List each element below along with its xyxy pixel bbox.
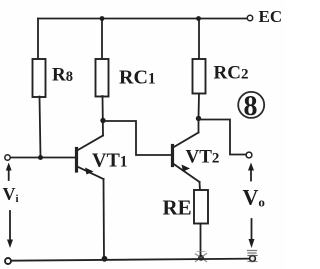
resistor R8 — [33, 59, 46, 97]
wire bottom rail — [11, 259, 253, 261]
wire VT2 collector vertical — [198, 118, 200, 133]
Vo arrow up — [248, 163, 254, 181]
wire RE bottom vertical — [200, 224, 202, 259]
wire R8 top vertical — [37, 19, 39, 60]
transistor VT1 — [77, 136, 104, 180]
svg-text:EC: EC — [259, 7, 283, 26]
wire VT2 emitter vertical — [199, 182, 202, 191]
svg-text:VT2: VT2 — [186, 147, 220, 168]
node figure number circle — [238, 92, 264, 118]
node RE/ground junction — [196, 252, 207, 262]
wire VT1 emitter vertical — [103, 179, 106, 260]
svg-text:RC1: RC1 — [119, 67, 156, 89]
Vi arrow down — [7, 211, 13, 248]
svg-text:8: 8 — [244, 91, 258, 122]
node emitter/ground junction — [102, 256, 108, 262]
wire VT1 base lead — [11, 157, 76, 159]
resistor RC2 — [193, 59, 206, 94]
node RC1 top junction — [100, 16, 105, 21]
ground terminal right — [248, 251, 258, 262]
wire RC1 bottom vertical — [102, 96, 105, 136]
wire RC2 top vertical — [198, 19, 200, 60]
wire coupling C1-B2 — [103, 121, 172, 155]
wire top rail — [38, 18, 247, 20]
node VT2 collector junction — [196, 116, 201, 121]
wire RC1 top vertical — [101, 19, 103, 60]
Vi arrow up — [6, 163, 12, 181]
svg-text:R8: R8 — [52, 65, 73, 86]
wire R8 bottom vertical — [40, 97, 41, 158]
svg-text:VT1: VT1 — [92, 150, 128, 172]
resistor RC1 — [96, 59, 109, 97]
wire RC2 bottom vertical — [198, 94, 201, 119]
transistor VT2 — [173, 133, 200, 183]
resistor RE — [194, 190, 208, 224]
node R8/base junction — [38, 155, 43, 160]
svg-text:Vo: Vo — [243, 185, 265, 210]
svg-text:RE: RE — [163, 196, 192, 220]
output terminal — [246, 152, 252, 158]
EC supply terminal — [247, 15, 252, 20]
node RC2 top junction — [196, 16, 201, 21]
svg-text:RC2: RC2 — [214, 63, 249, 84]
ground terminal left — [5, 258, 11, 264]
Vo arrow down — [249, 219, 255, 248]
wire output jog — [199, 120, 247, 155]
node VT1 collector junction — [100, 118, 105, 123]
svg-text:Vi: Vi — [3, 184, 19, 205]
input terminal — [5, 155, 10, 160]
